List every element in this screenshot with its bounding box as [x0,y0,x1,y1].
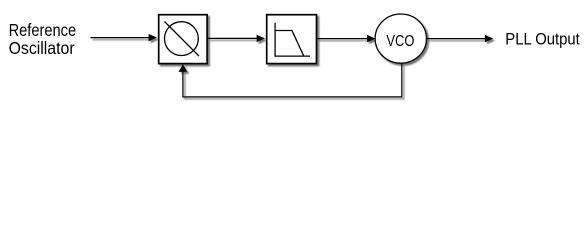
svg-text:VCO: VCO [386,33,414,50]
phase detector mixer symbol (circle with slash) [165,22,200,57]
VCO U2 (ellipse) [375,14,426,63]
svg-text:Oscillator: Oscillator [9,38,75,58]
svg-text:PLL Output: PLL Output [505,30,580,49]
loop filter (low-pass) box [267,15,317,64]
wire: VCO to PLL output [427,35,494,42]
low-pass filter response symbol [275,23,310,56]
wire: phase detector to loop filter [208,35,265,42]
wire: reference oscillator to phase detector [91,34,158,41]
svg-text:Reference: Reference [9,20,77,40]
wire: loop filter to VCO [317,35,376,42]
feedback wire: VCO bottom to phase detector bottom [179,63,402,97]
phase detector U1 (box) [159,15,207,64]
